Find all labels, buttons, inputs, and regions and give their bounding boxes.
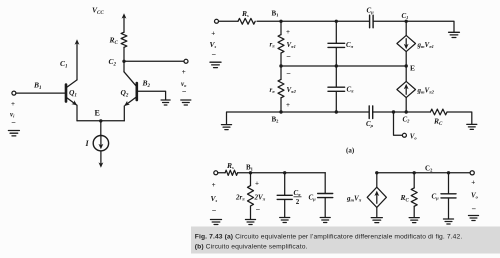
node Rc top (b) bbox=[413, 171, 416, 174]
ground (Cmu left, b) bbox=[320, 218, 330, 223]
svg-text:−: − bbox=[286, 69, 291, 78]
collector arrow C1 (to Vcc) bbox=[75, 39, 80, 80]
capacitor Cmu1 (top, horizontal) bbox=[370, 15, 374, 28]
ground (Vo, b) bbox=[469, 216, 479, 221]
svg-text:+: + bbox=[211, 30, 215, 38]
ground (Vs input, b) bbox=[211, 220, 222, 225]
svg-text:(a): (a) bbox=[346, 147, 355, 155]
svg-text:+: + bbox=[182, 68, 186, 76]
svg-text:+: + bbox=[212, 181, 216, 189]
svg-text:+: + bbox=[255, 179, 259, 187]
Vcc supply arrow bbox=[122, 13, 127, 32]
input terminal circle Vs (a) bbox=[215, 19, 219, 23]
wire B1 to Cmu (b left) bbox=[251, 172, 326, 174]
svg-text:−: − bbox=[11, 118, 16, 127]
dependent source gmVpi1 (a) bbox=[397, 21, 416, 66]
node Vo tap junction bbox=[392, 110, 395, 113]
wire Rc to node C2 bbox=[123, 47, 125, 61]
ground (Cpi/2, b) bbox=[280, 218, 290, 223]
dependent source gmVpi (b) bbox=[367, 173, 386, 217]
current source I bbox=[93, 135, 108, 151]
wire E rail bbox=[77, 120, 124, 122]
transistor Q1 bbox=[66, 80, 79, 107]
ground (Rc, b) bbox=[409, 218, 419, 223]
wire B1 input to Q1 base bbox=[16, 92, 65, 94]
label Cpi/2 fraction (b) bbox=[294, 189, 302, 206]
svg-text:−: − bbox=[286, 52, 291, 61]
caption bbox=[195, 234, 463, 251]
wire bottom rail left to ground stub bbox=[227, 112, 282, 124]
ground (Q2 base B2) bbox=[161, 100, 170, 105]
wire Rc to ground (a) bbox=[447, 112, 472, 124]
node E junction dot bbox=[99, 119, 102, 122]
ground (input vi) bbox=[8, 131, 19, 136]
wire Cmu2 to C2 bbox=[373, 111, 406, 113]
capacitor Cmu (b right) bbox=[441, 173, 456, 219]
wire input to Rs (b) bbox=[218, 172, 225, 174]
resistor Rs (a) bbox=[238, 18, 255, 24]
wire C2 down to Q2 collector bbox=[123, 61, 125, 72]
svg-text:−: − bbox=[212, 206, 217, 215]
capacitor Cmu (b left) bbox=[318, 173, 333, 217]
wire Rs to B1 bbox=[257, 20, 281, 22]
resistor Rc (a) bbox=[430, 109, 447, 115]
resistor Rs (b) bbox=[225, 170, 237, 175]
svg-text:E: E bbox=[95, 109, 100, 118]
ground (C1, top right) bbox=[449, 32, 460, 37]
svg-text:−: − bbox=[212, 50, 217, 59]
node B2 (a) bbox=[279, 110, 282, 113]
capacitor Cmu2 (bottom, horizontal) bbox=[369, 106, 373, 119]
svg-text:(b) Circuito equivalente sempl: (b) Circuito equivalente semplificato. bbox=[195, 243, 308, 250]
ground (output vo) bbox=[181, 100, 191, 105]
capacitor Cpi2 (a) bbox=[328, 66, 345, 112]
transistor Q2 bbox=[123, 72, 137, 108]
node C2 (a) bbox=[405, 110, 408, 113]
resistor 2rpi (b) bbox=[248, 173, 254, 219]
wire current source to negative supply arrow bbox=[99, 151, 104, 168]
svg-text:−: − bbox=[182, 87, 187, 96]
dependent source gmVpi2 (a) bbox=[397, 66, 416, 112]
resistor Rc (left circuit) bbox=[121, 32, 127, 47]
caption gray strip bbox=[191, 227, 500, 254]
junction dots Cpi1 bbox=[335, 20, 338, 23]
wire Cmu1 to C1 bbox=[373, 20, 406, 22]
wire Q1 emitter down to E rail bbox=[76, 105, 78, 120]
node B1 (b) bbox=[249, 171, 252, 174]
svg-text:+: + bbox=[471, 179, 475, 187]
node diamond top (b) bbox=[375, 171, 378, 174]
input terminal circle (vi) bbox=[12, 91, 16, 95]
capacitor Cpi1 (a) bbox=[328, 21, 345, 66]
resistor r-pi-2 (a) bbox=[278, 66, 284, 112]
node C1 (a) bbox=[405, 20, 408, 23]
node Cmu right top (b) bbox=[447, 171, 450, 174]
wire top rail B1 to Cmu1 bbox=[281, 20, 369, 22]
wire output rail (b) bbox=[377, 172, 470, 174]
wire Vo tap bbox=[394, 112, 403, 135]
junction dot Cpi2 bottom bbox=[335, 110, 338, 113]
ground (Rc, a) bbox=[467, 124, 477, 129]
svg-text:2: 2 bbox=[296, 198, 300, 206]
svg-text:+: + bbox=[286, 28, 290, 36]
svg-text:+: + bbox=[286, 101, 290, 109]
svg-text:−: − bbox=[256, 205, 261, 214]
output terminal circle Vo (b) bbox=[470, 171, 474, 175]
output terminal circle Vo (a) bbox=[402, 133, 406, 137]
ground (Cmu right, b) bbox=[444, 219, 454, 224]
svg-text:Fig. 7.43 (a) Circuito equival: Fig. 7.43 (a) Circuito equivalente per l… bbox=[195, 234, 463, 241]
node rpi1/E junction bbox=[279, 64, 282, 67]
resistor r-pi-1 (a) bbox=[278, 21, 284, 66]
wire Q2 base to ground bbox=[138, 91, 166, 99]
wire C1 to ground stub bbox=[406, 21, 454, 32]
wire C2 to output terminal bbox=[124, 60, 184, 62]
svg-text:−: − bbox=[472, 204, 477, 213]
wire Q2 emitter down to E rail bbox=[123, 106, 125, 121]
wire bottom rail B2 to Cmu2 bbox=[281, 111, 369, 113]
capacitor Cpi/2 (b) bbox=[277, 173, 292, 217]
node Cpi/2 top (b) bbox=[283, 171, 286, 174]
input terminal circle Vs (b) bbox=[214, 171, 218, 175]
ground (bottom left of a) bbox=[222, 125, 232, 130]
resistor Rc (b) bbox=[411, 173, 417, 217]
node B1 (a) bbox=[279, 20, 282, 23]
wire input to Rs bbox=[219, 20, 239, 22]
node C2 junction dot bbox=[122, 60, 125, 63]
wire Rs to B1 (b) bbox=[238, 172, 251, 174]
ground (gmVpi, b) bbox=[371, 218, 382, 223]
ground (2rpi, b) bbox=[246, 220, 256, 225]
wire E rail (a) bbox=[281, 65, 406, 67]
wire C2 to Rc (a) bbox=[406, 111, 430, 113]
svg-text:+: + bbox=[11, 100, 15, 108]
svg-text:E: E bbox=[410, 64, 415, 73]
wire E to current source bbox=[100, 121, 102, 136]
ground (Vs input, a) bbox=[210, 62, 221, 67]
node E (a) bbox=[405, 64, 408, 67]
output terminal circle vo bbox=[184, 59, 188, 63]
